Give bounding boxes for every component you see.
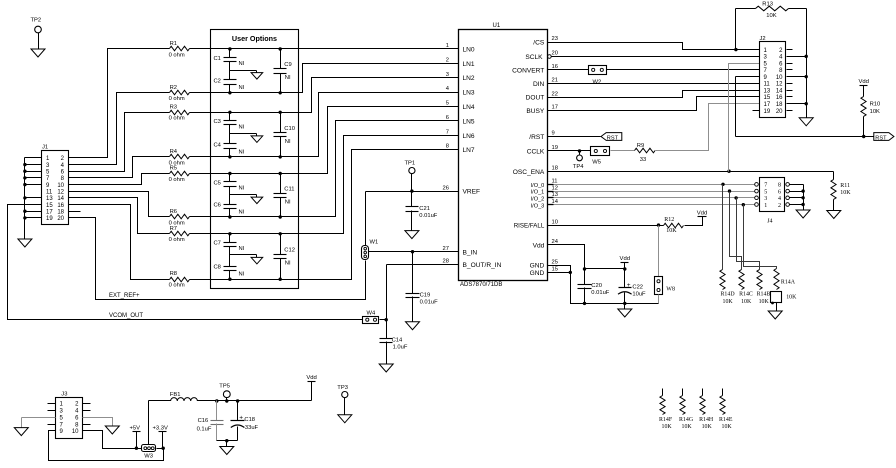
power Vdd (698, 216, 707, 218)
wire (226, 441, 228, 447)
wire (735, 9, 737, 50)
wire (624, 304, 626, 309)
svg-text:C16: C16 (198, 418, 209, 424)
resistor R12 (659, 225, 664, 227)
svg-text:LN1: LN1 (463, 61, 475, 68)
svg-text:R1: R1 (170, 41, 177, 47)
svg-text:NI: NI (239, 149, 245, 155)
svg-text:0 ohm: 0 ohm (169, 96, 185, 102)
wire (730, 192, 742, 270)
wire (230, 254, 257, 256)
junction (734, 48, 737, 51)
svg-text:R14H: R14H (699, 417, 714, 423)
ground (31, 49, 45, 57)
svg-text:C21: C21 (419, 206, 430, 212)
svg-text:0 ohm: 0 ohm (169, 177, 185, 183)
wire (190, 107, 459, 174)
svg-text:20: 20 (552, 51, 558, 57)
wire (217, 440, 238, 442)
wire (658, 226, 660, 277)
junction (742, 203, 745, 206)
svg-text:C14: C14 (392, 337, 403, 343)
wire (790, 191, 804, 193)
capacitor C2 (229, 71, 231, 80)
svg-text:15: 15 (764, 95, 771, 101)
ground (251, 73, 263, 80)
wire (69, 174, 170, 185)
svg-text:21: 21 (552, 78, 558, 84)
svg-text:LN2: LN2 (463, 75, 475, 82)
svg-text:R12: R12 (664, 217, 674, 223)
svg-text:25: 25 (552, 259, 558, 265)
svg-text:TP4: TP4 (573, 164, 584, 170)
svg-text:19: 19 (764, 109, 771, 115)
svg-text:10K: 10K (702, 424, 713, 430)
svg-text:C12: C12 (284, 248, 295, 254)
wire (229, 209, 231, 217)
junction (279, 155, 282, 158)
wire (25, 184, 42, 186)
wire J1 pin18 stub (69, 211, 81, 213)
capacitor C16 (216, 401, 218, 421)
ground (379, 364, 393, 372)
wire (69, 157, 170, 178)
junction (728, 189, 731, 192)
pin 6 J4 (786, 189, 790, 193)
wire (787, 76, 807, 78)
wire (148, 401, 150, 445)
power Vdd (311, 382, 313, 401)
junction (623, 267, 626, 270)
svg-text:6: 6 (446, 115, 449, 121)
svg-text:2: 2 (778, 203, 781, 209)
wire (607, 69, 760, 71)
test point TP4 (579, 151, 581, 155)
junction (135, 447, 138, 450)
svg-text:8: 8 (446, 144, 449, 150)
svg-text:14: 14 (57, 196, 64, 202)
resistor R8 (170, 277, 190, 282)
ground (251, 136, 263, 143)
svg-text:GND: GND (530, 270, 545, 277)
power Vdd (624, 263, 626, 269)
wire I/O_3 net (548, 204, 554, 206)
svg-text:J2: J2 (760, 36, 766, 42)
resistor R14A 10K box (771, 292, 782, 303)
capacitor C11 (280, 174, 282, 194)
wire (230, 133, 257, 135)
svg-text:NI: NI (285, 139, 291, 145)
svg-text:NI: NI (239, 246, 245, 252)
wire (69, 205, 170, 280)
svg-text:C9: C9 (284, 62, 291, 68)
ground (406, 322, 420, 330)
wire (25, 177, 42, 179)
resistor R14B (757, 270, 762, 290)
wire (280, 198, 282, 217)
ground (338, 415, 352, 423)
User Options box (211, 30, 299, 289)
wire (787, 69, 793, 71)
wire (776, 303, 778, 311)
wire (157, 448, 164, 450)
capacitor C10 (280, 113, 282, 133)
svg-text:18: 18 (552, 165, 558, 171)
resistor R10 (860, 85, 868, 87)
svg-text:R10: R10 (870, 102, 881, 108)
svg-text:17: 17 (46, 210, 53, 216)
junction (801, 203, 804, 206)
wire (280, 259, 282, 280)
wire DIN net (548, 83, 760, 85)
resistor R14E (722, 389, 724, 396)
wire J3 pin9 net (49, 431, 164, 461)
svg-text:C8: C8 (214, 265, 221, 271)
wire (229, 149, 231, 157)
pin 5 J4 (755, 189, 759, 193)
wire (25, 171, 42, 173)
svg-text:B_OUT/R_IN: B_OUT/R_IN (463, 262, 502, 269)
wire RST net (736, 136, 874, 138)
wire (190, 78, 459, 113)
junction (279, 47, 282, 50)
svg-text:23: 23 (552, 36, 558, 42)
wire (69, 198, 170, 234)
svg-text:8: 8 (778, 183, 781, 189)
wire (787, 103, 807, 105)
svg-text:10K: 10K (870, 109, 880, 115)
wire J1 ground bus (24, 158, 26, 239)
svg-text:DIN: DIN (533, 81, 545, 88)
pin 7 J4 (755, 183, 759, 187)
wire (744, 205, 777, 269)
junction (279, 91, 282, 94)
wire (787, 63, 793, 65)
svg-text:C5: C5 (214, 180, 221, 186)
svg-text:R14G: R14G (679, 417, 694, 423)
svg-text:OSC_ENA: OSC_ENA (513, 169, 545, 176)
svg-text:W8: W8 (666, 287, 675, 293)
svg-text:BUSY: BUSY (526, 108, 545, 115)
capacitor C9 (280, 49, 282, 69)
capacitor C22 (624, 269, 626, 288)
svg-text:J3: J3 (61, 391, 67, 397)
svg-text:VREF: VREF (463, 189, 481, 196)
wire (229, 62, 231, 71)
svg-text:C1: C1 (214, 56, 221, 62)
junction (23, 163, 26, 166)
capacitor C14 (380, 338, 393, 340)
svg-text:R7: R7 (170, 226, 177, 232)
capacitor C4 (229, 134, 231, 144)
wire (69, 49, 170, 158)
junction (228, 111, 231, 114)
svg-text:19: 19 (46, 216, 53, 222)
junction (228, 232, 231, 235)
ground (799, 118, 813, 126)
wire (656, 104, 760, 151)
svg-text:NI: NI (239, 209, 245, 215)
junction (23, 210, 26, 213)
svg-text:TP2: TP2 (31, 18, 42, 24)
wire (790, 197, 804, 199)
wire (280, 137, 282, 157)
svg-text:C2: C2 (214, 78, 221, 84)
wire (190, 136, 459, 234)
test point TP1 (411, 174, 413, 192)
junction (23, 216, 26, 219)
svg-text:13: 13 (46, 196, 53, 202)
junction (23, 176, 26, 179)
ground (796, 210, 810, 218)
svg-text:User Options: User Options (232, 34, 277, 43)
ground (768, 311, 782, 319)
junction (657, 223, 660, 226)
svg-text:12: 12 (552, 185, 558, 191)
wire (548, 136, 601, 138)
junction (279, 215, 282, 218)
svg-text:R4: R4 (170, 149, 178, 155)
svg-text:C20: C20 (591, 283, 602, 289)
svg-text:VCOM_OUT: VCOM_OUT (109, 313, 143, 319)
svg-text:11: 11 (552, 179, 558, 185)
svg-text:1.0uF: 1.0uF (393, 344, 408, 350)
svg-text:DOUT: DOUT (526, 95, 545, 102)
wire DOUT net (548, 91, 760, 98)
wire (69, 93, 170, 165)
wire (190, 150, 459, 280)
junction (623, 302, 626, 305)
wire J2 ground bus (806, 9, 808, 118)
wire (737, 198, 760, 270)
svg-text:I/O_2: I/O_2 (531, 197, 545, 203)
wire (69, 113, 170, 172)
svg-text:27: 27 (443, 246, 449, 252)
wire EXT_REF+ net (69, 218, 366, 300)
wire (380, 319, 387, 321)
svg-text:R14E: R14E (719, 417, 733, 423)
net flag RST (right) (874, 133, 894, 141)
svg-text:/CS: /CS (533, 40, 545, 47)
svg-text:LN7: LN7 (463, 147, 475, 154)
wire B_IN net (369, 251, 459, 253)
junction (23, 183, 26, 186)
svg-text:10K: 10K (682, 424, 693, 430)
junction (23, 196, 26, 199)
wire (190, 64, 459, 93)
resistor R14G (682, 389, 684, 396)
svg-text:11: 11 (46, 190, 53, 196)
svg-text:10K: 10K (759, 299, 770, 305)
svg-text:26: 26 (443, 185, 449, 191)
pin 8 J4 (786, 183, 790, 187)
svg-text:C7: C7 (214, 241, 221, 247)
svg-text:+3.3V: +3.3V (153, 426, 168, 432)
resistor R14F (662, 389, 664, 396)
svg-text:U1: U1 (493, 23, 501, 29)
svg-text:C3: C3 (214, 119, 221, 125)
junction (801, 196, 804, 199)
wire B_OUT/R_IN net (387, 264, 459, 266)
svg-text:10K: 10K (741, 299, 752, 305)
svg-text:22: 22 (552, 91, 558, 97)
svg-text:J4: J4 (767, 219, 772, 225)
pin 4 J4 (786, 196, 790, 200)
wire (787, 96, 793, 98)
junction (727, 170, 730, 173)
junction (721, 183, 724, 186)
svg-text:0 ohm: 0 ohm (169, 52, 185, 58)
junction (801, 189, 804, 192)
wire (571, 273, 659, 304)
svg-text:14: 14 (776, 88, 783, 94)
svg-text:7: 7 (446, 129, 449, 135)
svg-text:NI: NI (285, 199, 291, 205)
junction (228, 278, 231, 281)
ground (251, 197, 263, 204)
svg-text:5: 5 (446, 101, 449, 107)
pin 2 J4 (786, 203, 790, 207)
wire (25, 211, 42, 213)
svg-text:1: 1 (764, 203, 767, 209)
svg-text:0.01uF: 0.01uF (420, 300, 439, 306)
ground (105, 426, 119, 434)
svg-text:17: 17 (764, 102, 771, 108)
svg-text:+: + (627, 282, 631, 289)
svg-text:28: 28 (443, 259, 449, 265)
svg-text:2: 2 (446, 58, 449, 64)
capacitor C21 (411, 192, 413, 207)
resistor R14H (702, 389, 704, 396)
capacitor C8 (229, 255, 231, 267)
svg-text:R3: R3 (170, 104, 177, 110)
jumper W2 (589, 66, 607, 75)
ground (618, 309, 632, 317)
pin 1 J4 (755, 203, 759, 207)
junction (279, 111, 282, 114)
svg-text:LN3: LN3 (463, 90, 475, 97)
junction (279, 278, 282, 281)
resistor R14D (720, 270, 725, 290)
capacitor C7 (229, 234, 231, 243)
wire (48, 410, 56, 412)
resistor R3 (170, 110, 190, 115)
junction (225, 399, 228, 402)
svg-text:Vdd: Vdd (533, 243, 545, 250)
svg-text:I/O_1: I/O_1 (531, 190, 545, 196)
svg-text:Vdd: Vdd (620, 256, 630, 262)
junction (583, 302, 586, 305)
wire (658, 295, 660, 304)
svg-text:ADS7870/71DB: ADS7870/71DB (460, 282, 502, 288)
wire (230, 70, 257, 72)
wire (685, 217, 703, 226)
resistor R2 (170, 90, 190, 95)
resistor R5 (170, 171, 190, 176)
junction (236, 399, 239, 402)
wire (729, 64, 760, 172)
ground (827, 211, 841, 219)
capacitor C1 (229, 49, 231, 58)
svg-text:R9: R9 (637, 143, 644, 149)
resistor R9 (635, 148, 656, 153)
wire (548, 69, 589, 71)
wire (48, 403, 56, 405)
svg-text:I/O_3: I/O_3 (531, 203, 545, 209)
svg-text:0 ohm: 0 ohm (169, 283, 185, 289)
wire (548, 150, 591, 152)
wire SCLK net (552, 56, 760, 58)
ground (405, 231, 419, 239)
svg-text:10K: 10K (766, 13, 776, 19)
svg-text:LN0: LN0 (463, 47, 475, 54)
svg-text:0 ohm: 0 ohm (169, 237, 185, 243)
svg-text:1: 1 (446, 43, 449, 49)
capacitor C12 (280, 234, 282, 255)
wire J2 pin19 stub (753, 110, 760, 112)
junction (583, 267, 586, 270)
svg-text:LN6: LN6 (463, 133, 475, 140)
svg-text:17: 17 (552, 105, 558, 111)
svg-text:C6: C6 (214, 203, 221, 209)
svg-text:6: 6 (778, 189, 781, 195)
jumper W8 (655, 277, 663, 295)
svg-text:J1: J1 (42, 144, 48, 150)
wire GND net (548, 266, 571, 273)
resistor R7 (170, 231, 190, 236)
svg-text:C10: C10 (284, 126, 295, 132)
wire (787, 110, 793, 112)
capacitor C5 (229, 174, 231, 182)
wire /CS net (548, 43, 760, 50)
svg-text:5: 5 (764, 189, 767, 195)
svg-text:W1: W1 (370, 240, 379, 246)
svg-text:W2: W2 (593, 79, 602, 85)
svg-text:NI: NI (239, 186, 245, 192)
svg-text:R5: R5 (170, 166, 177, 172)
wire (736, 76, 760, 78)
svg-text:10K: 10K (666, 228, 677, 234)
svg-text:NI: NI (239, 85, 245, 91)
svg-text:10: 10 (776, 75, 783, 81)
svg-text:B_IN: B_IN (463, 249, 478, 256)
svg-text:10K: 10K (786, 295, 797, 301)
jumper W3 (142, 445, 156, 452)
wire (25, 164, 42, 166)
svg-text:13: 13 (764, 88, 771, 94)
svg-text:R14A: R14A (781, 279, 796, 285)
wire BUSY net (548, 97, 760, 111)
wire (722, 185, 724, 270)
svg-text:LN4: LN4 (463, 104, 475, 111)
svg-text:3: 3 (446, 72, 449, 78)
svg-text:Vdd: Vdd (306, 375, 316, 381)
junction (862, 135, 865, 138)
wire (611, 150, 635, 152)
svg-text:C19: C19 (420, 293, 431, 299)
wire (83, 403, 91, 405)
junction (228, 47, 231, 50)
svg-text:W5: W5 (592, 159, 601, 165)
svg-text:SCLK: SCLK (525, 54, 543, 61)
wire (25, 217, 42, 219)
svg-text:10K: 10K (722, 424, 733, 430)
wire (25, 157, 42, 159)
svg-text:4: 4 (778, 196, 781, 202)
svg-text:20: 20 (57, 216, 64, 222)
svg-text:0.01uF: 0.01uF (591, 290, 610, 296)
wire I/O_0 net (548, 184, 554, 186)
